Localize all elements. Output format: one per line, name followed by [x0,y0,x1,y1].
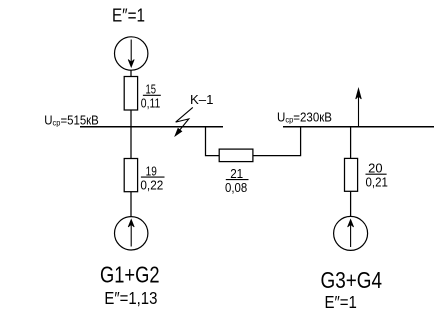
resistor 15 [124,77,137,111]
wire: drop from left bus to reactor 21 [206,127,220,156]
arrow to system (up from right bus) [356,89,362,127]
wire: resistor 19 column (bus to resistor) [130,127,132,159]
wire: resistor 20 to generator G3+G4 [350,191,352,216]
svg-text:0,11: 0,11 [141,96,161,110]
svg-text:0,08: 0,08 [225,181,247,195]
generator G-top circle [115,37,148,70]
resistor 19 [124,159,137,192]
wire: resistor 15 to left bus [130,110,132,127]
svg-text:K–1: K–1 [190,92,214,107]
svg-text:19: 19 [146,165,157,179]
svg-text:G3+G4: G3+G4 [321,267,383,293]
wire: reactor 21 to right bus [253,127,301,156]
generator G3+G4 circle [334,216,368,250]
bus 230kV (right busbar) [283,126,434,128]
svg-text:Uср=230кВ: Uср=230кВ [277,110,332,125]
wire: right bus to resistor 20 [350,127,352,159]
resistor 21 (tie reactor) [219,149,253,162]
label 19/0,22 [140,165,164,193]
wire: resistor 19 to generator G1+G2 [130,192,132,217]
generator G1+G2 arrow (up) [128,220,134,247]
fault K-1 bolt arrow [175,107,193,136]
svg-text:20: 20 [368,162,382,176]
generator G3+G4 arrow (up) [348,220,354,248]
svg-text:0,22: 0,22 [140,178,163,192]
generator G1+G2 circle [115,217,148,250]
wire: top generator to resistor 15 [130,70,132,76]
svg-text:0,21: 0,21 [366,175,388,189]
svg-text:G1+G2: G1+G2 [100,262,160,288]
bus 515kV (left busbar) [80,126,223,128]
svg-text:21: 21 [230,167,243,181]
svg-text:E″=1: E″=1 [325,292,357,312]
svg-text:E″=1,13: E″=1,13 [104,288,157,308]
resistor 20 [345,158,358,191]
svg-text:15: 15 [146,83,157,97]
label 15/0,11 [141,83,161,111]
label 21/0,08 [225,167,249,195]
generator G-top arrow (down) [128,40,134,68]
svg-text:Uср=515кВ: Uср=515кВ [44,112,99,127]
label 20/0,21 [366,162,388,190]
svg-text:E″=1: E″=1 [112,6,145,26]
